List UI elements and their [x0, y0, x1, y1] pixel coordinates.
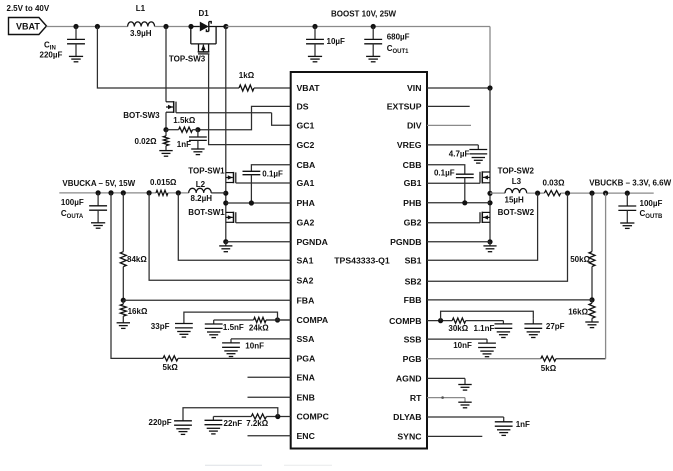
svg-text:GB1: GB1	[404, 178, 422, 188]
svg-text:BOT-SW2: BOT-SW2	[498, 208, 535, 217]
transistor BOT-SW3	[166, 101, 174, 103]
svg-text:VIN: VIN	[407, 83, 421, 93]
junction FBB divider	[589, 191, 594, 196]
svg-text:PGB: PGB	[403, 354, 422, 364]
svg-text:5kΩ: 5kΩ	[163, 363, 179, 372]
junction SA1 branch	[176, 190, 181, 195]
svg-text:10nF: 10nF	[453, 341, 472, 350]
wire SSA pin	[231, 338, 291, 340]
inductor L2 8.2uH	[189, 188, 212, 193]
transistor TOP-SW3	[190, 27, 192, 44]
svg-text:VBAT: VBAT	[297, 83, 321, 93]
svg-text:PGNDB: PGNDB	[390, 237, 421, 247]
svg-text:100µF: 100µF	[640, 199, 663, 208]
wire TOP-SW3 gate to GC2	[209, 54, 291, 145]
wire VBUCKB rail from switch node to L3	[490, 192, 505, 194]
svg-text:ENA: ENA	[297, 372, 316, 382]
svg-text:DLYAB: DLYAB	[393, 412, 421, 422]
transistor BOT-SW2	[482, 211, 490, 213]
svg-text:COMPC: COMPC	[297, 412, 330, 422]
wire SB1 sense	[427, 193, 538, 260]
svg-text:TOP-SW2: TOP-SW2	[498, 166, 535, 175]
svg-text:L1: L1	[136, 4, 146, 13]
capacitor C_OUTB 100uF	[626, 193, 628, 206]
wire GC1 jog to BOT-SW3 gate	[272, 113, 291, 126]
junction SB1 branch	[535, 191, 540, 196]
junction BOT-SW3 source sense	[163, 127, 168, 132]
svg-text:VBAT: VBAT	[16, 21, 40, 31]
svg-text:DIV: DIV	[407, 121, 422, 131]
svg-text:22nF: 22nF	[224, 419, 243, 428]
ground below 16k B	[585, 321, 598, 323]
svg-text:0.1µF: 0.1µF	[262, 170, 283, 179]
wire COMPC pin	[266, 416, 290, 418]
capacitor 22nF COMPC	[212, 417, 214, 421]
svg-text:3.9µH: 3.9µH	[130, 29, 152, 38]
capacitor 1.1nF COMPB	[502, 321, 504, 324]
wire 220pF branch	[183, 408, 278, 417]
svg-text:GA1: GA1	[297, 178, 315, 188]
svg-text:1nF: 1nF	[177, 140, 191, 149]
junction VBAT sense branch	[95, 24, 100, 29]
svg-text:VREG: VREG	[397, 140, 422, 150]
svg-text:1kΩ: 1kΩ	[239, 71, 255, 80]
resistor 0.015 ohm sense A	[156, 190, 168, 195]
svg-text:TOP-SW3: TOP-SW3	[169, 54, 206, 63]
svg-text:100µF: 100µF	[61, 198, 84, 207]
svg-text:8.2µH: 8.2µH	[191, 194, 213, 203]
junction 0.1uF to PHA	[249, 200, 254, 205]
resistor 1k ohm	[239, 85, 254, 91]
svg-text:GA2: GA2	[297, 218, 315, 228]
wire EXTSUP open stub	[427, 105, 470, 107]
junction boost switch node	[163, 24, 168, 29]
wire PHA pin	[226, 202, 291, 204]
ground RT	[464, 398, 466, 403]
svg-text:10nF: 10nF	[245, 341, 264, 350]
svg-text:PHA: PHA	[297, 198, 316, 208]
junction COMPC	[275, 414, 280, 419]
svg-text:SA2: SA2	[297, 276, 314, 286]
wire PGA with 5k to rail	[111, 193, 163, 359]
junction C_IN	[73, 24, 78, 29]
capacitor 10nF SSA	[230, 339, 232, 343]
ground below 0.02 ohm	[159, 150, 172, 152]
junction small mark on RT wire	[441, 396, 444, 399]
wire ENA open stub	[248, 376, 291, 378]
svg-text:ENC: ENC	[297, 431, 316, 441]
capacitor 220pF COMPC	[182, 416, 184, 421]
wire boost rail corner down to VIN	[489, 27, 491, 89]
transistor TOP-SW1	[226, 172, 234, 174]
capacitor 10uF boost	[314, 27, 316, 40]
svg-text:7.2kΩ: 7.2kΩ	[246, 419, 269, 428]
svg-text:30kΩ: 30kΩ	[448, 324, 468, 333]
svg-text:1.5kΩ: 1.5kΩ	[173, 116, 196, 125]
wire right bridge vertical	[489, 88, 491, 242]
wire AGND pin	[427, 377, 465, 379]
svg-text:FBA: FBA	[297, 295, 316, 305]
wire PGNDB pin	[427, 241, 490, 243]
wire COMPB pin	[427, 320, 452, 322]
svg-text:GC2: GC2	[297, 140, 315, 150]
svg-text:0.015Ω: 0.015Ω	[150, 178, 177, 187]
junction 1.5k / 1nF	[195, 127, 200, 132]
svg-text:L2: L2	[196, 180, 206, 189]
junction VIN	[487, 85, 492, 90]
junction SA2 branch	[147, 190, 152, 195]
svg-text:1.5nF: 1.5nF	[223, 323, 244, 332]
capacitor 0.1uF CBA bootstrap	[251, 165, 290, 172]
svg-text:24kΩ: 24kΩ	[249, 324, 269, 333]
svg-text:16kΩ: 16kΩ	[568, 308, 588, 317]
resistor 24k ohm	[254, 317, 267, 322]
inductor L3 15uH	[505, 189, 527, 194]
transistor BOT-SW1	[226, 211, 234, 213]
svg-text:1.1nF: 1.1nF	[474, 324, 495, 333]
op-amp U1 TPS43333-Q1 IC body	[291, 72, 427, 449]
svg-text:220µF: 220µF	[40, 51, 63, 60]
svg-text:SYNC: SYNC	[397, 432, 422, 442]
resistor 5k ohm B	[541, 356, 556, 361]
wire SA1 sense	[178, 193, 290, 260]
capacitor 0.1uF CBB bootstrap	[427, 165, 465, 174]
junction C_OUTA	[96, 190, 101, 195]
junction PGB branch	[603, 191, 608, 196]
ground below 16k A	[117, 322, 130, 324]
resistor 5k ohm A	[163, 356, 178, 361]
wire PGB with 5k to rail	[427, 358, 541, 360]
capacitor 10nF SSB	[486, 339, 488, 343]
svg-text:VBUCKB – 3.3V, 6.6W: VBUCKB – 3.3V, 6.6W	[589, 179, 671, 188]
ground below left bridge	[225, 242, 227, 246]
junction PGA branch	[108, 190, 113, 195]
svg-text:BOT-SW3: BOT-SW3	[123, 111, 160, 120]
capacitor 1nF at DS	[197, 130, 199, 137]
svg-text:COMPA: COMPA	[297, 315, 329, 325]
wire boost output rail	[226, 26, 490, 28]
capacitor 27pF COMPB	[532, 319, 534, 324]
svg-text:1nF: 1nF	[516, 420, 530, 429]
svg-text:COMPB: COMPB	[389, 316, 421, 326]
svg-text:TPS43333-Q1: TPS43333-Q1	[334, 255, 390, 265]
junction PGNDB ground	[487, 239, 492, 244]
resistor 0.02 ohm sense	[165, 130, 167, 136]
wire PHB pin	[427, 202, 490, 204]
svg-text:27pF: 27pF	[546, 322, 565, 331]
wire ENB open stub	[248, 396, 291, 398]
wire 33pF branch	[184, 312, 278, 320]
wire SSB pin	[427, 338, 487, 340]
capacitor 1nF DLYAB	[503, 417, 505, 422]
svg-text:10µF: 10µF	[327, 37, 346, 46]
junction FBA	[121, 298, 126, 303]
junction PHA	[223, 200, 228, 205]
svg-text:BOT-SW1: BOT-SW1	[188, 208, 225, 217]
wire COMPA pin	[266, 319, 291, 321]
svg-text:2.5V to 40V: 2.5V to 40V	[7, 4, 50, 13]
svg-text:EXTSUP: EXTSUP	[387, 102, 422, 112]
resistor 7.2k ohm	[251, 414, 266, 419]
resistor 1.5k ohm	[179, 127, 193, 132]
wire boost vertical down left bridge	[225, 27, 227, 242]
svg-text:CBB: CBB	[403, 160, 422, 170]
ground below 1nF	[191, 148, 204, 150]
junction C_OUTB	[625, 191, 630, 196]
transistor TOP-SW2	[482, 171, 490, 173]
wire VREG pin	[427, 144, 478, 146]
svg-text:SB1: SB1	[405, 256, 422, 266]
capacitor C_OUTA 100uF	[97, 193, 99, 206]
svg-text:DS: DS	[297, 102, 309, 112]
wire SYNC open stub	[427, 435, 482, 437]
wire RT pin	[427, 397, 465, 399]
wire L3 to sense resistor	[527, 192, 545, 194]
ground below right bridge	[489, 242, 491, 246]
svg-text:SA1: SA1	[297, 256, 314, 266]
wire ENC open stub	[248, 435, 291, 437]
junction D1 anode	[188, 24, 193, 29]
svg-text:0.03Ω: 0.03Ω	[543, 179, 566, 188]
svg-text:220pF: 220pF	[149, 418, 172, 427]
wire rail to L2	[168, 192, 189, 194]
wire PGNDA pin	[226, 241, 291, 243]
resistor 30k ohm	[452, 318, 466, 323]
wire top rail from VBAT tag to L1	[47, 26, 128, 28]
capacitor 33pF COMPA	[183, 319, 185, 324]
svg-text:PGA: PGA	[297, 354, 317, 364]
junction SB2 branch	[565, 191, 570, 196]
node VBAT input tag	[9, 18, 47, 35]
decorative faint caption remnants	[205, 464, 262, 466]
wire VIN pin	[427, 87, 490, 89]
svg-text:VBUCKA – 5V, 15W: VBUCKA – 5V, 15W	[62, 179, 135, 188]
diode D1 schottky	[191, 26, 200, 28]
wire 27pF branch	[441, 311, 534, 320]
svg-text:BOOST 10V, 25W: BOOST 10V, 25W	[331, 10, 397, 19]
wire FBB pin	[427, 299, 592, 301]
resistor 50k ohm divider	[591, 193, 593, 252]
svg-text:0.02Ω: 0.02Ω	[135, 137, 158, 146]
svg-text:GC1: GC1	[297, 121, 315, 131]
wire 1k to VBAT pin	[254, 87, 291, 89]
junction COMPA	[275, 317, 280, 322]
junction L2 at switch node	[223, 191, 228, 196]
wire DS pin to sense junction	[198, 106, 291, 129]
svg-text:5kΩ: 5kΩ	[541, 364, 557, 373]
junction L3 at switch node	[487, 191, 492, 196]
svg-text:SSA: SSA	[297, 334, 316, 344]
resistor 16k ohm divider A	[120, 304, 126, 316]
junction 10uF	[312, 24, 317, 29]
junction C_OUT1	[371, 24, 376, 29]
svg-text:AGND: AGND	[396, 374, 422, 384]
svg-text:84kΩ: 84kΩ	[127, 255, 147, 264]
svg-text:16kΩ: 16kΩ	[128, 307, 148, 316]
junction FBB	[589, 297, 594, 302]
ground AGND	[464, 378, 466, 384]
svg-text:D1: D1	[199, 9, 210, 18]
wire boost switch node down to BOT-SW3	[165, 27, 167, 102]
svg-text:PHB: PHB	[403, 198, 421, 208]
junction FBA divider	[121, 190, 126, 195]
resistor 16k ohm divider B	[589, 303, 595, 318]
svg-text:RT: RT	[410, 393, 422, 403]
junction D1 cathode boost out	[223, 24, 228, 29]
svg-text:680µF: 680µF	[387, 33, 410, 42]
svg-text:SSB: SSB	[404, 334, 422, 344]
svg-text:33pF: 33pF	[151, 322, 170, 331]
wire L2 to switch node	[211, 192, 226, 194]
wire VBAT pin branch with 1k resistor	[97, 27, 239, 89]
wire BOT-SW3 source down	[165, 112, 167, 130]
svg-text:ENB: ENB	[297, 393, 315, 403]
wire SB2 sense	[427, 193, 568, 281]
wire VBUCKB rail right	[561, 192, 654, 194]
svg-text:FBB: FBB	[404, 295, 422, 305]
svg-text:GB2: GB2	[404, 218, 422, 228]
svg-text:PGNDA: PGNDA	[297, 237, 329, 247]
junction PGNDA ground	[223, 239, 228, 244]
wire rail L1 to switch node	[155, 26, 191, 28]
wire DLYAB pin	[427, 416, 504, 418]
inductor L1 3.9uH	[128, 22, 155, 27]
resistor 0.03 ohm sense B	[544, 191, 560, 196]
svg-text:0.1µF: 0.1µF	[434, 169, 455, 178]
junction COMPB	[438, 318, 443, 323]
capacitor 4.7uF VREG	[477, 145, 479, 150]
junction 0.1uF to PHB	[462, 200, 467, 205]
wire DIV open stub	[427, 124, 471, 126]
wire SA2 sense	[149, 193, 291, 280]
svg-text:CBA: CBA	[297, 160, 317, 170]
svg-text:L3: L3	[512, 177, 522, 186]
capacitor C_OUT1 680uF	[372, 27, 374, 40]
svg-text:15µH: 15µH	[505, 195, 525, 204]
capacitor C_IN 220uF	[75, 27, 77, 40]
junction PHB	[487, 200, 492, 205]
svg-text:50kΩ: 50kΩ	[570, 255, 590, 264]
svg-text:4.7µF: 4.7µF	[449, 149, 470, 158]
svg-text:TOP-SW1: TOP-SW1	[188, 166, 225, 175]
resistor 84k ohm divider	[122, 193, 124, 252]
svg-text:SB2: SB2	[405, 277, 422, 287]
wire FBA pin	[123, 299, 290, 301]
capacitor 1.5nF COMPA	[213, 320, 215, 324]
